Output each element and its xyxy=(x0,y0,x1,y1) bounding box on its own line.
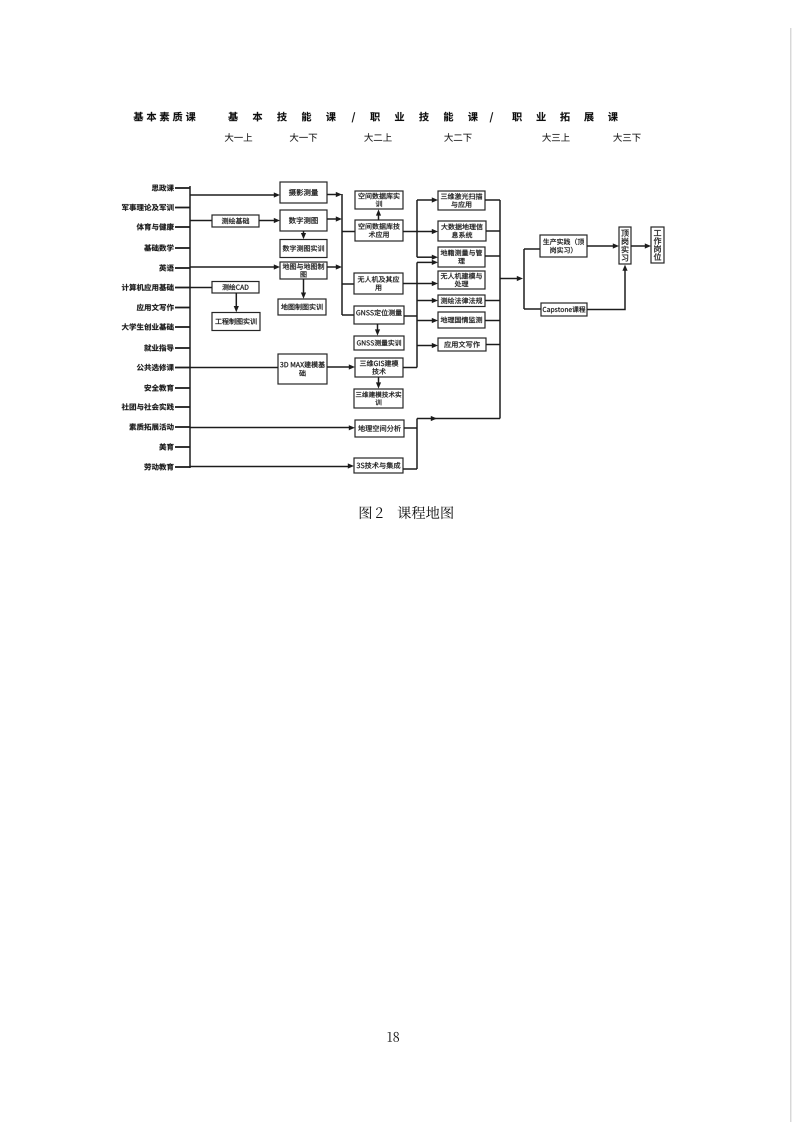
wire spine-4 output arrow xyxy=(500,276,523,281)
wire GNSS定位测量 to GNSS测量实训 xyxy=(375,324,380,336)
box 无人机建模与处理 xyxy=(438,271,485,289)
wire 地理空间分析 to collector xyxy=(404,427,417,429)
wire dash 素质拓展活动 to spine xyxy=(175,426,190,428)
wire feeder-1 branch to 三维激光扫描与应用 xyxy=(417,197,438,202)
wire bracket bottom to Capstone课程 xyxy=(524,308,541,310)
wire dash 大学生创业基础 to spine xyxy=(175,326,190,328)
wire 测绘CAD to 工程制图实训 xyxy=(234,293,239,312)
label 美育 xyxy=(159,443,173,450)
label 思政课 xyxy=(152,184,174,191)
box 应用文写作 (course) xyxy=(438,338,486,351)
wire dash 体育与健康 to spine xyxy=(175,226,190,228)
wire 3D-MAX to 三维GIS建模技术 xyxy=(327,364,355,369)
header semester 大一上 xyxy=(225,133,252,142)
wire spine-2 branch to GNSS定位测量 xyxy=(342,314,354,316)
label 社团与社会实践 xyxy=(122,403,174,410)
box 地图与地图制图 xyxy=(280,262,327,279)
box 数字测图实训 xyxy=(280,240,327,258)
label 素质拓展活动 xyxy=(129,423,173,430)
wire bracket vertical xyxy=(523,249,525,309)
wire bracket top to 生产实践 xyxy=(524,248,540,250)
wire dash 英语 to spine xyxy=(175,267,190,269)
wire 素质拓展活动 line to 地理空间分析 xyxy=(190,425,355,430)
wire dash 计算机应用基础 to spine xyxy=(175,287,190,289)
box 工程制图实训 xyxy=(212,313,260,331)
box Capstone课程 xyxy=(541,303,587,316)
wire 数字测图 to spine-2 xyxy=(327,216,342,221)
label 英语 xyxy=(159,264,174,271)
box 三维GIS建模技术 xyxy=(355,358,403,377)
wire feeder-1 vertical xyxy=(416,200,418,257)
box 3S技术与集成 xyxy=(354,458,403,473)
box 数字测图 xyxy=(280,210,327,231)
label 体育与健康 xyxy=(137,223,174,230)
wire spine-1 vertical xyxy=(189,186,191,468)
wire 空间数据库技术应用 to 大数据地理信息系统 xyxy=(403,229,438,234)
wire dash 就业指导 to spine xyxy=(175,347,190,349)
box 地理空间分析 xyxy=(355,420,404,437)
label 计算机应用基础 xyxy=(122,284,174,291)
wire collector to spine-4 with mid arrow xyxy=(417,416,500,421)
box GNSS定位测量 xyxy=(354,306,404,324)
wire 应用文写作 to spine-4 xyxy=(486,344,500,346)
box 大数据地理信息系统 xyxy=(438,221,486,241)
label 军事理论及军训 xyxy=(122,204,174,211)
wire 地图与地图制图 to 地图制图实训 xyxy=(301,279,306,299)
header 职业拓展课 xyxy=(512,112,618,122)
wire dash 军事理论及军训 to spine xyxy=(175,207,190,209)
header slash 2 xyxy=(490,112,494,122)
wire 计算机应用基础 branch to 测绘CAD xyxy=(190,287,212,289)
header 职业技能课 xyxy=(370,112,478,122)
wire 劳动教育 line to 3S技术与集成 xyxy=(190,463,354,468)
wire GNSS定位测量 to feeder-2 xyxy=(404,315,417,317)
wire feeder-2 branch to 地理国情监测 xyxy=(417,318,438,323)
header slash 1 xyxy=(352,112,356,122)
wire Capstone课程 to 顶岗实习 xyxy=(587,265,628,310)
wire spine-2 branch to 空间数据库技术应用 xyxy=(342,231,355,233)
wire 英语 line to 地图与地图制图 xyxy=(190,264,280,269)
wire 数字测图 to 数字测图实训 xyxy=(301,231,306,239)
box 无人机及其应用 xyxy=(354,273,403,294)
scan edge line right xyxy=(790,28,792,1122)
box 生产实践（顶岗实习） xyxy=(540,235,587,257)
header semester 大三下 xyxy=(613,133,640,142)
wire dash 社团与社会实践 to spine xyxy=(175,406,190,408)
box 三维激光扫描与应用 xyxy=(438,191,485,210)
wire dash 劳动教育 to spine xyxy=(175,466,190,468)
wire collector vertical xyxy=(416,419,418,470)
label 基础数学 xyxy=(144,244,173,251)
page number 18 xyxy=(388,1032,399,1042)
wire 地籍测量与管理 to spine-4 xyxy=(485,255,500,257)
box 空间数据库技术应用 xyxy=(355,220,403,241)
wire dash 公共选修课 to spine xyxy=(175,367,190,369)
caption 图2 课程地图 xyxy=(360,506,453,519)
box 3D MAX建模基础 xyxy=(278,354,327,384)
header semester 大二上 xyxy=(364,133,391,142)
wire 三维激光扫描与应用 to spine-4 xyxy=(485,199,500,201)
wire feeder-2 vertical xyxy=(416,262,418,367)
label 劳动教育 xyxy=(144,463,173,470)
wire 地图与地图制图 to spine-2 xyxy=(327,264,342,269)
box 摄影测量 xyxy=(280,182,327,203)
wire 生产实践 to 顶岗实习 xyxy=(587,243,619,248)
wire spine-2 branch to 无人机及其应用 xyxy=(342,283,354,285)
wire 测绘基础 to 数字测图 xyxy=(259,218,280,223)
box 测绘基础 xyxy=(212,215,259,227)
wire 大数据地理信息系统 to spine-4 xyxy=(486,230,500,232)
wire dash 基础数学 to spine xyxy=(175,247,190,249)
wire dash 应用文写作 to spine xyxy=(175,307,190,309)
label 安全教育 xyxy=(144,384,173,391)
box 地图制图实训 xyxy=(278,299,326,315)
label 大学生创业基础 xyxy=(122,323,174,330)
wire feeder-2 branch to 测绘法律法规 xyxy=(417,298,438,303)
wire dash 思政课 to spine xyxy=(175,187,190,189)
wire spine-2 vertical xyxy=(341,194,343,315)
header semester 大二下 xyxy=(444,133,471,142)
wire dash 美育 to spine xyxy=(175,446,190,448)
wire 摄影测量 to spine-2 xyxy=(327,192,342,197)
wire spine-4 vertical xyxy=(499,200,501,419)
header semester 大一下 xyxy=(290,133,317,142)
wire feeder-2 branch to 地籍测量与管理 (lower) xyxy=(417,260,438,265)
wire 三维GIS建模技术 to 三维建模技术实训 xyxy=(376,377,381,389)
wire 无人机及其应用 to 无人机建模与处理 xyxy=(403,281,438,286)
box GNSS测量实训 xyxy=(354,336,404,350)
wire 空间数据库技术应用 to 空间数据库实训 xyxy=(376,209,381,220)
box 工作岗位 (vertical text) xyxy=(651,227,664,263)
wire 3S技术与集成 to collector xyxy=(403,468,417,470)
wire 三维GIS建模技术 to feeder-2 xyxy=(403,367,417,369)
box 地理国情监测 xyxy=(438,312,485,328)
box 测绘CAD xyxy=(212,282,259,294)
wire dash 安全教育 to spine xyxy=(175,387,190,389)
header 基本素质课 xyxy=(134,112,196,122)
header semester 大三上 xyxy=(542,133,569,142)
header 基本技能课 xyxy=(228,112,336,122)
label 应用文写作 xyxy=(137,304,174,311)
wire 测绘法律法规 to spine-4 xyxy=(485,300,500,302)
wire 顶岗实习 to 工作岗位 xyxy=(631,243,651,248)
wire feeder-1 branch to 地籍测量与管理 (upper) xyxy=(417,255,438,260)
wire 思政课 branch to 摄影测量 xyxy=(190,192,280,197)
wire 体育与健康 branch to 测绘基础 xyxy=(190,220,212,222)
wire 公共选修课 line to 3D-MAX xyxy=(190,367,278,369)
box 三维建模技术实训 xyxy=(354,389,403,408)
wire 地理国情监测 to spine-4 xyxy=(485,320,500,322)
box 地籍测量与管理 xyxy=(438,247,485,267)
box 空间数据库实训 xyxy=(355,191,403,209)
label 公共选修课 xyxy=(137,364,174,371)
wire feeder-2 branch to 应用文写作 xyxy=(417,343,438,348)
box 测绘法律法规 xyxy=(438,295,485,307)
box 顶岗实习 (vertical text) xyxy=(619,227,631,264)
label 就业指导 xyxy=(144,344,173,351)
